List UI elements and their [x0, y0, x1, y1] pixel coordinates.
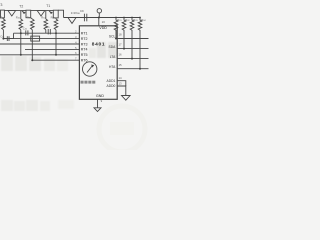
wire	[98, 13, 100, 18]
svg-text:RT3: RT3	[81, 42, 88, 46]
wire ADD1	[117, 81, 126, 86]
wire	[20, 30, 22, 55]
junction on RT5 net right	[55, 54, 57, 56]
junction rail R83	[131, 17, 133, 19]
wire branch R cell3	[55, 18, 57, 19]
watermark row mid-left	[1, 56, 68, 71]
labels	[0, 3, 84, 15]
resistor box on RT2 net	[31, 36, 40, 41]
resistor RL cell2	[19, 19, 23, 30]
net line SCL	[117, 38, 148, 40]
junction LTA net	[131, 58, 133, 60]
resistor RR cell3	[54, 19, 58, 30]
resistor R pullup1	[114, 18, 118, 39]
svg-text:RT4: RT4	[81, 48, 88, 52]
ground G1	[8, 11, 16, 16]
net line RT5	[0, 54, 79, 56]
thermistor T1 box	[53, 10, 58, 18]
svg-text:ADD1: ADD1	[107, 79, 116, 83]
junction on RT2 net	[2, 38, 4, 40]
svg-text:17: 17	[119, 43, 123, 47]
net line RT1	[14, 32, 80, 34]
wire ADD0	[117, 86, 126, 96]
resistor R pullup2	[122, 18, 126, 49]
svg-text:8401: 8401	[92, 41, 105, 47]
capacitor C rail	[83, 14, 85, 22]
resistor R pullup3	[130, 18, 134, 59]
wire jog from T1 box to rail	[58, 10, 63, 17]
junction rail R82	[123, 17, 125, 19]
svg-text:T1: T1	[46, 4, 50, 8]
net line RT2	[3, 38, 79, 40]
net line HTA	[117, 68, 148, 70]
wire	[31, 30, 33, 61]
junction SDA net	[123, 48, 125, 50]
thermistor T3 box	[1, 10, 5, 18]
capacitor C cell1	[3, 38, 7, 40]
svg-text:ADD0: ADD0	[107, 84, 116, 88]
svg-text:15: 15	[119, 63, 123, 67]
junction on RT5 net	[20, 54, 22, 56]
svg-text:16: 16	[119, 53, 123, 57]
IC U1 box	[79, 26, 117, 100]
net line RT6	[32, 59, 79, 61]
svg-text:14: 14	[119, 76, 123, 80]
net line SDA	[117, 48, 148, 50]
svg-text:RT1: RT1	[81, 32, 88, 36]
arrowhead thermistor T2	[24, 12, 26, 15]
junction rail R84	[139, 17, 141, 19]
ground GND	[94, 108, 101, 112]
svg-text:18: 18	[119, 33, 123, 37]
junction VDD rail at terminal	[98, 17, 100, 19]
ground G2	[37, 11, 45, 16]
resistor RR cell2	[31, 19, 35, 30]
svg-text:VDD: VDD	[99, 26, 107, 30]
svg-text:SDA: SDA	[109, 45, 117, 49]
svg-text:RT2: RT2	[81, 37, 88, 41]
junction HTA net	[139, 68, 141, 70]
svg-text:HTA: HTA	[109, 65, 116, 69]
wire branch R cell1	[2, 18, 5, 19]
capacitor C cell3	[47, 29, 49, 34]
resistor R pullup4	[138, 18, 142, 69]
3.3V rail	[64, 17, 141, 19]
wire VDD stub	[98, 18, 100, 26]
junction rail R81	[115, 17, 117, 19]
junction on RT6 net	[31, 59, 33, 61]
wire	[55, 30, 57, 55]
arrowhead thermistor T1	[51, 12, 53, 15]
svg-text:LTA: LTA	[110, 55, 116, 59]
svg-text:RT5: RT5	[81, 53, 88, 57]
ground ADD	[122, 96, 131, 101]
net line RT4	[25, 48, 79, 50]
svg-text:GND: GND	[96, 94, 104, 98]
svg-text:RT6: RT6	[81, 59, 88, 63]
wire branch R cell2	[31, 18, 33, 19]
resistor RL cell3	[44, 19, 48, 30]
terminal circle	[97, 9, 101, 13]
wire branch L cell3	[45, 11, 47, 19]
thermistor T2 box	[26, 10, 31, 18]
svg-text:SCL: SCL	[109, 35, 116, 39]
arrowhead sensor circle	[91, 65, 94, 68]
IC pin labels	[81, 26, 107, 98]
wire	[45, 30, 47, 34]
svg-text:13: 13	[119, 81, 123, 85]
wire	[31, 10, 54, 12]
svg-text:C9: C9	[80, 9, 84, 13]
svg-text:T2: T2	[19, 4, 23, 8]
wire	[2, 30, 4, 39]
wire top row	[4, 10, 26, 12]
watermark row bottom-left	[1, 100, 74, 111]
svg-text:T3: T3	[0, 3, 2, 7]
net line RT3	[0, 43, 79, 45]
wire branch L cell2	[20, 11, 22, 19]
resistor R cell1	[2, 19, 6, 30]
net line LTA	[117, 58, 148, 60]
watermark ring bottom-right	[99, 106, 145, 152]
label ambient temperature (CJK placeholder blocks)	[81, 81, 96, 84]
svg-text:20: 20	[102, 20, 106, 24]
ground G3 on rail	[68, 18, 76, 24]
junction SCL net	[115, 38, 117, 40]
junction on RT1 net right	[55, 32, 57, 34]
junction on RT1 net	[20, 32, 22, 34]
temp sensor circle inside IC	[83, 62, 97, 76]
wire GND stub	[97, 99, 99, 108]
capacitor C cell2	[25, 30, 27, 35]
